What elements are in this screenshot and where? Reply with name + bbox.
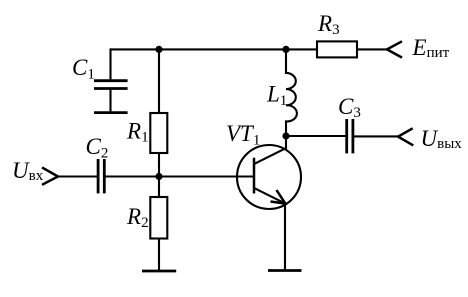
svg-text:L1: L1 xyxy=(266,82,287,110)
svg-text:Eпит: Eпит xyxy=(412,35,450,61)
svg-text:R2: R2 xyxy=(126,204,149,231)
svg-text:VT1: VT1 xyxy=(226,121,260,149)
svg-text:C1: C1 xyxy=(72,55,95,83)
svg-text:C2: C2 xyxy=(86,134,109,162)
svg-text:R1: R1 xyxy=(126,119,149,146)
svg-text:Uвх: Uвх xyxy=(12,158,44,184)
svg-text:C3: C3 xyxy=(338,94,361,121)
svg-text:Uвых: Uвых xyxy=(421,126,463,152)
svg-text:R3: R3 xyxy=(317,11,340,38)
